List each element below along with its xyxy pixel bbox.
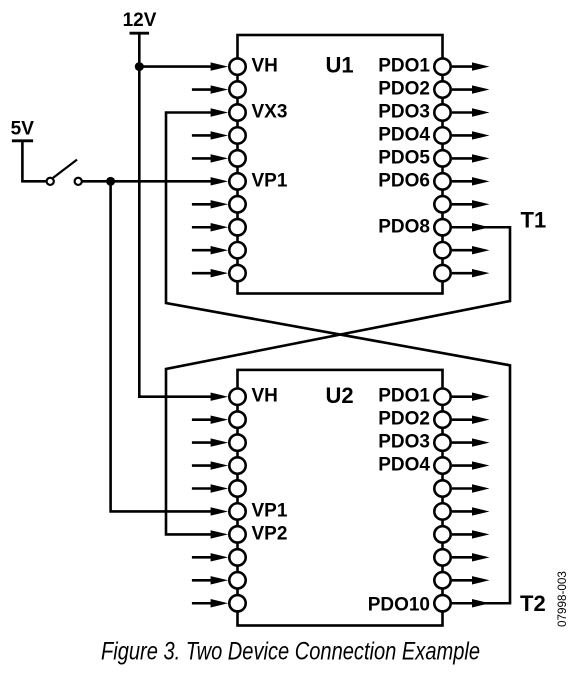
U1 right pin 6 circle [434,173,450,189]
arrowhead out of U2 pin PDO10 [472,599,490,607]
svg-text:PDO3: PDO3 [378,432,430,453]
svg-text:VH: VH [252,56,278,77]
svg-text:VP1: VP1 [252,500,288,521]
U2 pin label VP1 [252,500,288,521]
U2 pin label PDO4 [378,455,430,476]
U1 left pin 7 circle [229,196,245,212]
power label 12V [123,10,157,31]
stub arrow into U1 left pin 7 [192,200,228,208]
U2 pin label VH [252,386,278,407]
figure caption [101,638,480,666]
IC U1 designator [325,53,353,78]
U2 left pin 10 circle [229,595,245,611]
stub arrow into U1 left pin 4 [192,131,228,139]
U1 left pin 5 circle [229,150,245,166]
svg-text:Figure 3. Two Device Connectio: Figure 3. Two Device Connection Example [101,638,480,666]
U1 left pin 6 circle [229,173,245,189]
U1 right pin 4 circle [434,127,450,143]
switch S1 right contact [75,178,82,185]
junction dot 5V wire / U2 VP1 branch [106,177,115,186]
U2 left pin 6 circle [229,503,245,519]
U2 left pin 5 circle [229,480,245,496]
U2 right pin 4 circle [434,457,450,473]
U2 pin label PDO1 [378,386,430,407]
U1 pin label VH [252,56,278,77]
wire: 5V branch down to U2 VP1 [111,181,213,511]
net label T2 [520,591,546,616]
switch S1 lever [53,160,77,178]
U1 right pin 5 circle [434,150,450,166]
5V supply bar [12,139,33,142]
wire: switch to U1 VP1 [82,180,213,183]
U1 right pin 1 circle [434,58,450,74]
svg-text:T1: T1 [521,207,547,232]
U2 right pin 1 circle [434,389,450,405]
wire: net T1 from U1 PDO8 down to U2 VP2 [166,227,510,534]
output arrow U2 right pin 7 [452,530,490,538]
stub arrow into U1 left pin 9 [192,246,228,254]
arrowhead out of U1 pin PDO8 [472,223,490,231]
U2 right pin 10 circle [434,595,450,611]
power label 5V [11,118,35,139]
U2 pin label PDO10 [368,595,430,616]
U1 left pin 4 circle [229,127,245,143]
output arrow U2 right pin 6 [452,507,490,515]
svg-text:PDO6: PDO6 [378,170,430,191]
U2 right pin 2 circle [434,411,450,427]
svg-text:12V: 12V [123,10,157,31]
U1 pin label PDO5 [378,147,430,168]
wire: 12V rail down to U2 VH [139,33,213,397]
stub arrow into U1 left pin 8 [192,223,228,231]
stub arrow into U2 left pin 8 [192,553,228,561]
output arrow U1 right pin 5 [452,154,490,162]
U1 right pin 7 circle [434,196,450,212]
arrowhead into U1 pin VH [211,62,229,70]
svg-text:PDO4: PDO4 [378,455,430,476]
wire: 12V branch to U1 VH [139,65,213,68]
output arrow U1 right pin 3 [452,108,490,116]
U1 pin label PDO1 [378,56,430,77]
arrowhead into U2 pin VH [211,393,229,401]
U1 right pin 10 circle [434,265,450,281]
figure number code 07998-003 [556,571,569,627]
output arrow U2 right pin 1 [452,393,490,401]
U2 right pin 8 circle [434,549,450,565]
svg-text:5V: 5V [11,118,35,139]
U2 left pin 4 circle [229,457,245,473]
stub arrow into U2 left pin 3 [192,438,228,446]
svg-text:PDO1: PDO1 [378,56,430,77]
U2 left pin 3 circle [229,434,245,450]
stub arrow into U2 left pin 2 [192,415,228,423]
U2 left pin 7 circle [229,526,245,542]
U2 right pin 9 circle [434,572,450,588]
switch S1 left contact [47,178,54,185]
stub arrow into U1 left pin 5 [192,154,228,162]
U1 left pin 10 circle [229,265,245,281]
svg-text:U2: U2 [325,383,353,408]
wire: net T2 from U2 PDO10 up to U1 VX3 [166,113,510,604]
stub arrow into U2 left pin 4 [192,461,228,469]
IC U2 body [238,370,443,626]
U1 left pin 1 circle [229,58,245,74]
U1 left pin 9 circle [229,242,245,258]
U2 pin label PDO3 [378,432,430,453]
svg-text:PDO8: PDO8 [378,216,430,237]
output arrow U2 right pin 9 [452,576,490,584]
U2 pin label PDO2 [378,409,430,430]
arrowhead into U2 pin VP1 [211,507,229,515]
svg-text:PDO1: PDO1 [378,386,430,407]
junction dot 12V rail / U1 VH branch [135,62,144,71]
U1 left pin 3 circle [229,104,245,120]
svg-text:U1: U1 [325,53,353,78]
output arrow U2 right pin 3 [452,438,490,446]
svg-text:T2: T2 [520,591,546,616]
output arrow U1 right pin 9 [452,246,490,254]
arrowhead into U1 pin VP1 [211,177,229,185]
U2 left pin 9 circle [229,572,245,588]
output arrow U1 right pin 6 [452,177,490,185]
svg-text:PDO4: PDO4 [378,124,430,145]
U1 pin label PDO4 [378,124,430,145]
U1 pin label PDO3 [378,102,430,123]
arrowhead into U2 pin VP2 [211,530,229,538]
net label T1 [521,207,547,232]
IC U1 body [238,35,443,294]
output arrow U2 right pin 5 [452,484,490,492]
svg-text:PDO2: PDO2 [378,409,430,430]
U1 pin label VP1 [252,170,288,191]
wire: 5V to switch [22,141,46,182]
12V supply bar [130,32,150,35]
U1 right pin 3 circle [434,104,450,120]
stub arrow into U2 left pin 5 [192,484,228,492]
U1 pin label PDO6 [378,170,430,191]
U1 pin label VX3 [252,102,288,123]
U2 left pin 8 circle [229,549,245,565]
IC U2 designator [325,383,353,408]
U1 right pin 8 circle [434,219,450,235]
stub arrow into U1 left pin 10 [192,269,228,277]
U1 pin label PDO2 [378,79,430,100]
arrowhead into U1 pin VX3 [211,108,229,116]
svg-text:VP2: VP2 [252,523,288,544]
output arrow U1 right pin 7 [452,200,490,208]
U1 left pin 2 circle [229,81,245,97]
svg-text:07998-003: 07998-003 [556,571,569,627]
svg-text:PDO2: PDO2 [378,79,430,100]
svg-text:PDO3: PDO3 [378,102,430,123]
U2 right pin 7 circle [434,526,450,542]
U2 left pin 1 circle [229,389,245,405]
U1 right pin 2 circle [434,81,450,97]
stub arrow into U2 left pin 10 [192,599,228,607]
svg-text:VP1: VP1 [252,170,288,191]
svg-text:PDO10: PDO10 [368,595,430,616]
U1 pin label PDO8 [378,216,430,237]
stub arrow into U1 left pin 2 [192,85,228,93]
svg-text:PDO5: PDO5 [378,147,430,168]
output arrow U2 right pin 4 [452,461,490,469]
output arrow U1 right pin 1 [452,62,490,70]
U1 right pin 9 circle [434,242,450,258]
U1 left pin 8 circle [229,219,245,235]
output arrow U1 right pin 10 [452,269,490,277]
U2 left pin 2 circle [229,411,245,427]
output arrow U2 right pin 8 [452,553,490,561]
svg-text:VH: VH [252,386,278,407]
U2 pin label VP2 [252,523,288,544]
U2 right pin 6 circle [434,503,450,519]
output arrow U2 right pin 2 [452,415,490,423]
output arrow U1 right pin 4 [452,131,490,139]
output arrow U1 right pin 2 [452,85,490,93]
U2 right pin 3 circle [434,434,450,450]
svg-text:VX3: VX3 [252,102,288,123]
U2 right pin 5 circle [434,480,450,496]
stub arrow into U2 left pin 9 [192,576,228,584]
